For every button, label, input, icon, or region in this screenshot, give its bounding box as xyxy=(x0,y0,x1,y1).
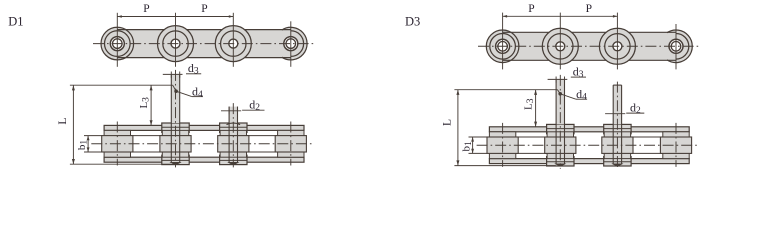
D1 plan view: pin 3 rivet head arc xyxy=(227,123,241,125)
D3 plan view: roller at pin 1 xyxy=(487,137,518,153)
D1 dimension b1 line xyxy=(87,136,89,152)
svg-text:P: P xyxy=(528,3,534,15)
D1 plan view: roller width lines (link 3-4) xyxy=(220,135,304,137)
D1 plan view: pin 3 (d2) end stub xyxy=(229,107,237,123)
D3 plan view: bushing at pin 1 xyxy=(489,132,515,159)
D1 plan view: roller at pin 4 xyxy=(275,136,306,152)
D3 plan view: roller at pin 2 xyxy=(545,137,576,153)
svg-text:L: L xyxy=(57,118,69,125)
D3 side view: pin end at pin 4 xyxy=(669,39,683,53)
D1 dimension d2 line xyxy=(221,110,241,112)
D3 plan view: outer plate waist top (link 2-3) xyxy=(572,127,607,132)
D3 plan view: centerline pin 3 xyxy=(616,82,618,169)
D3 plan view: inner link plates (link 1-2) bottom rail xyxy=(489,159,573,164)
D3 side view: right outer plate end cap (pin 4) xyxy=(660,30,693,63)
D1 plan view: roller width lines (link 1-2) xyxy=(104,135,189,137)
D3 side view: roller at pin 2 xyxy=(542,28,578,64)
D1 d4 dot on pin 2 xyxy=(174,89,178,93)
D3 plan view: roller width lines (link 1-2) xyxy=(489,136,573,138)
svg-text:b1: b1 xyxy=(76,140,90,151)
D1 plan view: horizontal centerline xyxy=(91,143,313,145)
D3 side view: vertical centerline pin 2 xyxy=(559,13,561,70)
D3 plan view: inner link plates (link 1-2) top rail xyxy=(489,127,573,132)
D1 plan view: bushing at pin 2 xyxy=(162,130,188,157)
D1 d2 label xyxy=(242,109,264,111)
D1 plan view: centerline pin 1 xyxy=(116,122,118,166)
D3 plan view: outer plate lobe at pin 3 top xyxy=(604,124,631,133)
D1 plan view: pin 3 head (bottom) xyxy=(229,163,238,165)
svg-text:L: L xyxy=(441,119,453,126)
D3 side view: roller at pin 3 xyxy=(599,28,635,64)
D3 dimension b1 line xyxy=(472,137,474,153)
D3 side view: pin end at pin 1 xyxy=(496,39,510,53)
D1 plan view: bushing at pin 3 xyxy=(220,130,246,157)
D1 plan view: roller at pin 3 xyxy=(218,136,249,152)
svg-text:d3: d3 xyxy=(188,61,199,77)
D3 L bottom extension line xyxy=(454,165,555,167)
D1 dimension d3 line xyxy=(163,73,183,75)
svg-text:P: P xyxy=(586,3,592,15)
svg-text:d4: d4 xyxy=(192,84,203,100)
D1 plan view: outer plate waist bottom (link 2-3) xyxy=(187,157,222,162)
D1 plan view: roller at pin 2 xyxy=(160,136,191,152)
svg-text:P: P xyxy=(143,3,149,15)
D1 plan view: centerline pin 4 xyxy=(290,122,292,166)
D1 side view: vertical centerline pin 2 xyxy=(175,13,177,67)
svg-text:D3: D3 xyxy=(405,15,420,29)
D3 plan view: centerline pin 2 xyxy=(559,75,561,169)
D1 plan view: bushing at pin 1 xyxy=(104,130,130,157)
D1 plan view: outer plate lobe at pin 3 top xyxy=(220,123,247,132)
D1 plan view: outer plate lobe at pin 2 bottom xyxy=(162,155,189,164)
D3 d3 pin edge extension ticks xyxy=(555,77,557,83)
D3 plan view: bushing at pin 2 xyxy=(547,132,573,159)
D3 dimension d3 line xyxy=(548,78,568,80)
D3 plan view: extended pin at pin 3 (d2) body xyxy=(613,85,621,124)
D1 side view: vertical centerline pin 3 xyxy=(232,13,234,67)
D1 side view: roller at pin 3 xyxy=(215,26,251,62)
svg-text:d4: d4 xyxy=(576,87,587,103)
D3 plan view: outer plate lobe at pin 3 bottom xyxy=(604,157,631,166)
D1 side view: horizontal centerline xyxy=(93,43,315,45)
D1 plan view: roller at pin 1 xyxy=(102,136,133,152)
D3 plan view: inner link plates (link 3-4) top rail xyxy=(604,127,689,132)
svg-text:b1: b1 xyxy=(460,141,474,152)
D3 plan view: centerline pin 1 xyxy=(502,123,504,167)
D1 side view: pin end at pin 4 xyxy=(284,37,298,51)
svg-text:d2: d2 xyxy=(630,101,641,117)
D3 side view: left outer plate end cap (pin 1) xyxy=(486,30,519,63)
svg-text:L3: L3 xyxy=(523,98,537,110)
D1 d3 label xyxy=(186,73,201,75)
D1 plan view: extended pin at pin 2 head (bottom) xyxy=(171,163,180,165)
D3 extension line from L/L3 to pin 2 (d4 leader) xyxy=(454,89,557,91)
D1 plan view: outer plate lobe at pin 3 bottom xyxy=(220,155,247,164)
D3 dimension L line xyxy=(457,90,459,166)
D3 plan view: roller at pin 3 xyxy=(602,137,633,153)
svg-text:d3: d3 xyxy=(573,65,584,81)
D1 dimension L3 line xyxy=(150,85,152,125)
D3 plan view: extended pin at pin 2 (d3) body xyxy=(556,79,564,124)
D1 plan view: outer plate lobe at pin 2 top xyxy=(162,123,189,132)
svg-text:P: P xyxy=(201,3,207,15)
D1 plan view: centerline pin 2 xyxy=(175,70,177,167)
D3 plan view: pin 3 head (bottom) xyxy=(613,164,622,166)
D3 b1 extension lines xyxy=(469,136,488,138)
D3 plan view: bushing at pin 3 xyxy=(604,132,630,159)
D1 plan view: inner link plates (link 1-2) top rail xyxy=(104,125,189,130)
D1 side view: left outer plate end cap (pin 1) xyxy=(101,27,134,60)
D3 dimension P line xyxy=(503,15,618,17)
D1 side view: chain plate band xyxy=(117,30,290,58)
D3 side view: vertical centerline pin 1 xyxy=(502,13,504,70)
D1 dimension P line xyxy=(117,16,233,18)
D3 plan view: outer plate lobe at pin 2 bottom xyxy=(547,157,574,166)
D3 side view: chain plate band xyxy=(503,32,676,60)
D3 dimension d2 line xyxy=(605,113,625,115)
D1 plan view: bushing at pin 4 xyxy=(278,130,304,157)
D3 side view: vertical centerline pin 3 xyxy=(616,13,618,70)
D1 b1 extension lines xyxy=(84,135,102,137)
D1 side view: right outer plate end cap (pin 4) xyxy=(275,27,308,60)
D3 side view: plate band edges xyxy=(503,31,676,33)
D3 d4 dot on pin 2 xyxy=(558,92,562,96)
D3 plan view: roller at pin 4 xyxy=(660,137,691,153)
D1 plan view: centerline pin 3 xyxy=(232,103,234,167)
D1 plan view: outer plate waist top (link 2-3) xyxy=(187,125,222,130)
D1 d4 leader line to label xyxy=(176,91,192,96)
D3 dimension L3 line xyxy=(535,90,537,127)
D3 plan view: bushing at pin 4 xyxy=(663,132,689,159)
D1 plan view: inner link plates (link 3-4) bottom rail xyxy=(220,157,304,162)
D1 d3 pin edge extension ticks xyxy=(170,72,172,78)
D3 plan view: roller width lines (link 3-4) xyxy=(604,136,689,138)
D1 side view: roller at pin 2 xyxy=(158,26,194,62)
D3 plan view: inner link plates (link 3-4) bottom rail xyxy=(604,159,689,164)
D3 side view: vertical centerline pin 4 xyxy=(675,24,677,69)
D1 dimension L line xyxy=(72,85,74,164)
D3 plan view: horizontal centerline xyxy=(477,144,699,146)
D1 plan view: inner link plates (link 1-2) bottom rail xyxy=(104,157,189,162)
D3 plan view: outer plate waist bottom (link 2-3) xyxy=(572,159,607,164)
D3 d3 label xyxy=(571,76,586,78)
D1 plan view: extended pin at pin 2 (d3) body xyxy=(171,74,179,123)
D1 side view: vertical centerline pin 1 xyxy=(116,13,118,67)
D3 plan view: extended pin at pin 2 head (bottom) xyxy=(556,164,565,166)
D1 L bottom extension line xyxy=(70,163,171,165)
D3 d2 label xyxy=(626,112,644,114)
svg-text:L3: L3 xyxy=(138,97,152,109)
D1 side view: pin end at pin 1 xyxy=(110,37,124,51)
D1 d2 pin edge extension ticks xyxy=(228,107,230,115)
D3 plan view: centerline pin 4 xyxy=(675,123,677,167)
D1 side view: plate band edges xyxy=(117,29,290,31)
D1 side view: vertical centerline pin 4 xyxy=(290,21,292,67)
D3 d4 leader line to label xyxy=(560,94,576,99)
D1 extension line from L/L3 to pin 2 (d4 leader) xyxy=(70,84,173,86)
D1 plan view: inner link plates (link 3-4) top rail xyxy=(220,125,304,130)
svg-text:d2: d2 xyxy=(249,98,260,114)
svg-text:D1: D1 xyxy=(8,15,23,29)
D3 side view: horizontal centerline xyxy=(478,45,700,47)
D3 plan view: outer plate lobe at pin 2 top xyxy=(547,124,574,133)
